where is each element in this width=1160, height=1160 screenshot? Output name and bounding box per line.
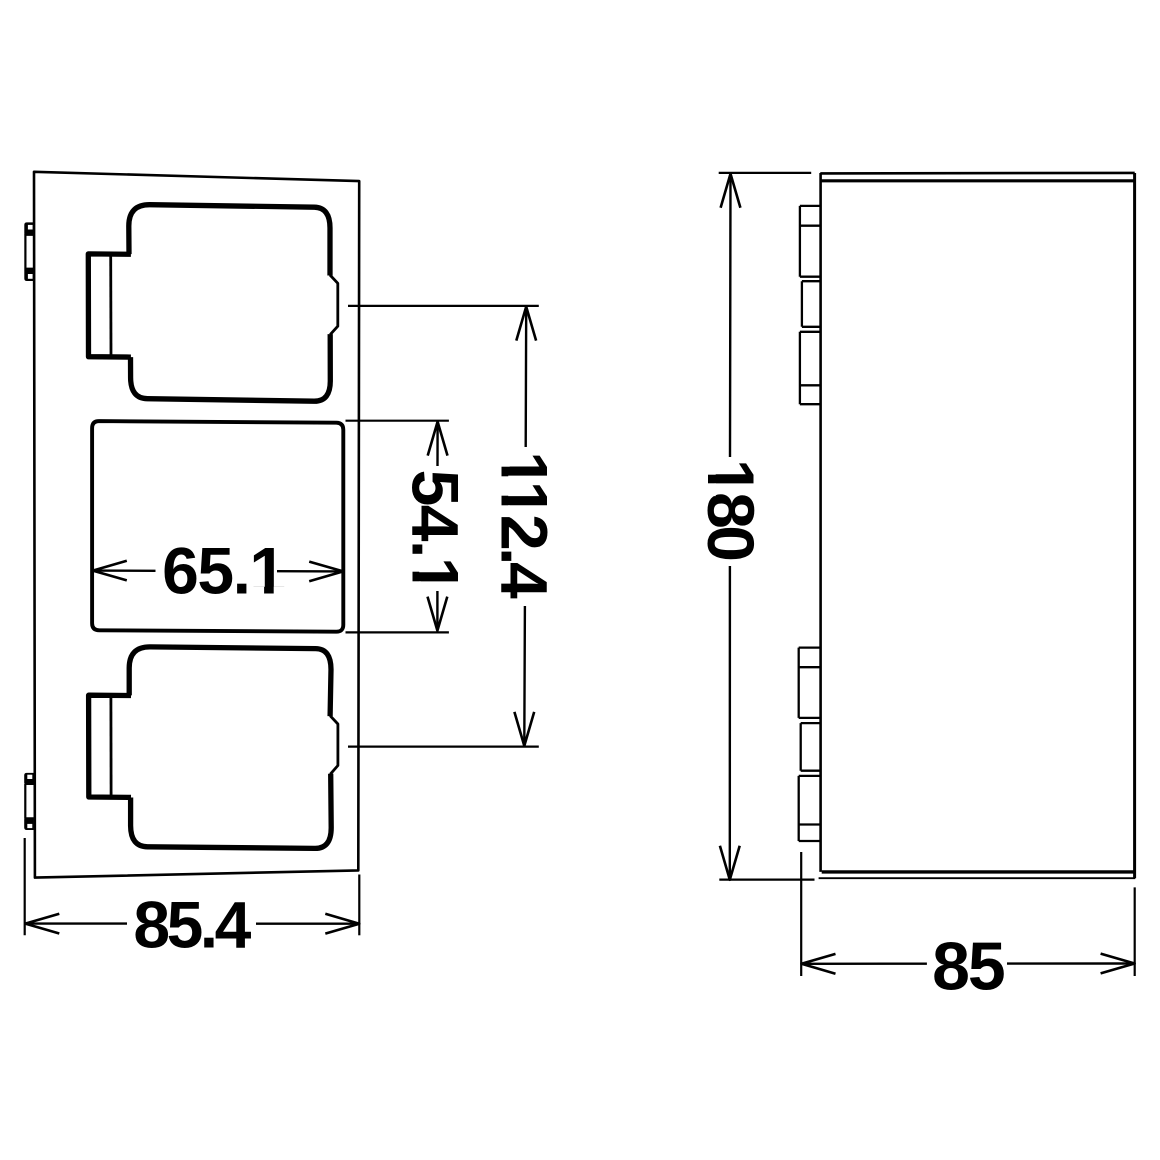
side view right edge [1133,173,1136,878]
dim 180 arrow top [721,174,741,208]
svg-text:85: 85 [932,929,1004,1005]
dim 65.1 arrow right [309,562,343,582]
bottom flap tab inner line [110,697,113,796]
front clip bottom left edge [24,784,26,819]
ext 85 left [800,852,802,976]
bottom flap latch bump [330,716,338,775]
top flap outline [88,205,330,402]
ext 85 right [1134,887,1136,976]
front clip top notch1 [28,225,33,230]
side view box top edge [820,172,1134,175]
white masks to remove the foot serif of "1" glyphs [412,560,421,572]
svg-text:54.1: 54.1 [399,470,473,592]
bottom flap outline [89,647,332,849]
front clip bottom bar1 [24,773,33,785]
dim 112.4 arrow top [516,307,536,341]
dim 112.4 line [524,308,526,745]
dim 65.1 line right [277,570,343,573]
dim 85 arrow right [1101,954,1135,974]
front view outer panel [34,172,359,878]
front clip bottom bar2 [24,817,33,830]
ext 180 bottom [719,878,814,880]
ext 54.1 bottom [346,631,449,633]
side clip top [800,206,821,404]
side view bottom thin line [819,877,1136,879]
dim 180 line [729,175,732,879]
top flap tab inner line [109,256,112,355]
svg-text:65.1: 65.1 [162,534,284,608]
middle opening rect [92,421,343,632]
front clip top left edge [24,234,26,270]
ext 54.1 top [346,420,449,422]
side clip bottom [799,648,821,841]
ext 85.4 left [24,838,26,935]
dim 85.4 arrow left [25,914,59,934]
dim 85 line [802,962,1135,965]
ext 112.4 top [348,305,539,307]
top flap latch bump [330,275,338,335]
front clip top notch2 [28,274,33,279]
front clip bottom notch2 [27,824,32,828]
front clip bottom notch1 [27,775,32,779]
svg-text:85.4: 85.4 [133,888,251,962]
dim 54.1 line [436,423,439,629]
dim 85.4 arrow right [325,914,359,934]
side view lid seam [822,179,1135,182]
ext 85.4 right [358,875,360,936]
side view bottom edge [822,870,1134,873]
side view left edge [819,173,822,872]
dim 65.1 line left [93,569,156,572]
dim 180 arrow bottom [720,846,740,880]
dim 65.1 arrow left [93,561,127,581]
ext 180 top [719,172,812,174]
ext 112.4 bottom [348,745,539,747]
dim 54.1 arrow top [428,422,448,456]
dim 85.4 line [25,922,359,925]
svg-text:112.4: 112.4 [488,451,562,599]
dim 54.1 arrow bottom [428,597,448,631]
front clip top bar2 [24,268,34,281]
dim 85 arrow left [802,954,836,974]
dim 112.4 arrow bottom [514,712,534,746]
front clip top bar1 [24,222,34,236]
svg-text:180: 180 [694,459,768,559]
